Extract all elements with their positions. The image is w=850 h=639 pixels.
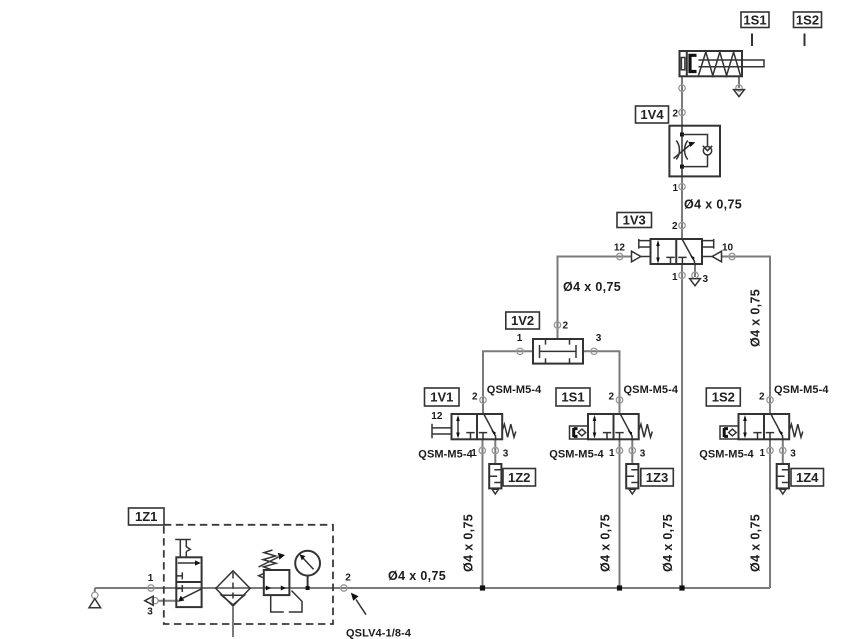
1S2 flow arrow (left position) (744, 418, 746, 437)
1V3 pilot triangle left (12) (632, 251, 641, 262)
svg-text:Ø4 x 0,75: Ø4 x 0,75 (661, 514, 675, 572)
shutoff valve exhaust diagonal (182, 589, 202, 599)
svg-text:Ø4 x 0,75: Ø4 x 0,75 (563, 280, 621, 294)
service unit 1Z1 dashed enclosure (164, 525, 333, 624)
svg-text:3: 3 (640, 449, 646, 460)
1V1 exhaust diagonal 2-3 (right square) (484, 414, 494, 433)
1V3 flow arrow (left square) (657, 243, 659, 262)
wire: cylinder exhaust stub (738, 76, 740, 88)
svg-text:Ø4 x 0,75: Ø4 x 0,75 (749, 514, 763, 572)
svg-text:1V4: 1V4 (640, 107, 664, 122)
1V4 throttle arcs (676, 141, 687, 160)
1S1 exhaust diagonal 2-3 (right square) (620, 414, 630, 433)
svg-text:1Z1: 1Z1 (135, 509, 157, 524)
silencer 1Z3 (626, 464, 638, 488)
cylinder return spring (699, 52, 741, 76)
1V3 pilot triangle right (10) (712, 251, 721, 262)
svg-text:QSLV4-1/8-4: QSLV4-1/8-4 (346, 628, 412, 639)
svg-text:1: 1 (672, 272, 678, 283)
shutoff valve detent lever (175, 540, 191, 558)
svg-text:3: 3 (147, 607, 153, 618)
regulator flow arrows (266, 586, 271, 591)
1Z1 port 2 node (341, 585, 347, 591)
1V2 port 1 node (517, 348, 523, 354)
svg-text:1: 1 (672, 183, 678, 194)
wire: riser 1V3 port 1 to manifold (681, 264, 683, 588)
wire: 1Z1 exhaust line (158, 600, 179, 602)
label box 1Z2 (503, 469, 536, 487)
junction node at 1V1 riser (480, 585, 485, 590)
svg-text:1S2: 1S2 (796, 12, 819, 27)
svg-text:3: 3 (596, 333, 602, 344)
wire: 1V3 port 3 exhaust stub (694, 264, 696, 277)
svg-text:1V2: 1V2 (511, 313, 534, 328)
filter drain line (232, 606, 234, 637)
regulator spring (263, 550, 276, 570)
wire: supply inlet bend (94, 588, 96, 593)
cylinder 1A (single-acting, spring return) body (680, 51, 743, 76)
svg-text:2: 2 (759, 392, 765, 403)
wire: 1V2 port 2 up to 1V3 pilot 12 (558, 257, 632, 340)
wire: 1S1 port 3 to silencer 1Z3 (631, 439, 633, 464)
1V4 through line (681, 126, 683, 177)
wire: riser to 1S1 port 1 (619, 439, 621, 588)
label box 1Z3 (641, 469, 674, 487)
silencer 1Z4 (777, 464, 789, 488)
1V3 top tabs (639, 239, 651, 249)
regulator relief vent loop (271, 591, 302, 612)
svg-text:1: 1 (609, 448, 615, 459)
1S1 blocked port T (right square) (615, 433, 623, 440)
label box 1V2 (506, 312, 540, 329)
1V2 I-beam shuttle (540, 345, 577, 358)
1V3 port 3 exhaust (692, 272, 698, 278)
1S1 flow arrow (left position) (594, 418, 596, 437)
wire: supply manifold horizontal (95, 587, 770, 589)
valve 1V3 body (3/2 double pilot) (651, 239, 703, 264)
svg-text:2: 2 (563, 321, 569, 332)
1V2 port 2 node (554, 322, 560, 328)
1Z1 exhaust port 3 (152, 598, 158, 604)
label box 1S2 (706, 388, 740, 406)
svg-text:QSM-M5-4: QSM-M5-4 (418, 449, 473, 461)
wire: riser to 1S2 port 1 (769, 439, 771, 588)
svg-text:2: 2 (472, 392, 478, 403)
svg-text:QSM-M5-4: QSM-M5-4 (487, 384, 542, 396)
1V2 seat ticks (546, 339, 570, 364)
1Z1 port 1 node (148, 585, 154, 591)
wire: 1V3 pilot 10 to 1S2 port 2 (722, 257, 771, 415)
1S2 blocked port T (right square) (766, 433, 774, 440)
QSLV pointer arrow (356, 600, 366, 615)
svg-text:3: 3 (703, 274, 709, 285)
svg-text:1Z4: 1Z4 (796, 470, 819, 485)
1S2 return spring (789, 424, 803, 437)
valve 1S2 body (739, 414, 790, 439)
1V1 flow arrow (left position) (457, 418, 459, 437)
regulator adjustment arrow (259, 557, 279, 567)
svg-text:1S1: 1S1 (561, 390, 584, 405)
svg-text:3: 3 (503, 449, 509, 460)
pressure regulator box (264, 570, 290, 595)
svg-text:2: 2 (672, 109, 678, 120)
shutoff valve flow arrow (top square) (178, 562, 196, 564)
1S2 exhaust diagonal 2-3 (right square) (771, 414, 781, 433)
svg-text:QSM-M5-4: QSM-M5-4 (774, 384, 829, 396)
cylinder piston (686, 51, 688, 76)
1S1 port nodes (616, 397, 622, 403)
cylinder magnet bracket (690, 55, 697, 71)
cylinder cushion rect (681, 58, 685, 70)
svg-text:Ø4 x 0,75: Ø4 x 0,75 (684, 198, 742, 212)
1V1 manual push-button actuator (432, 424, 452, 438)
svg-text:Ø4 x 0,75: Ø4 x 0,75 (388, 569, 446, 583)
1V4 port 1 node (679, 184, 685, 190)
svg-text:Ø4 x 0,75: Ø4 x 0,75 (462, 514, 476, 572)
svg-text:QSM-M5-4: QSM-M5-4 (624, 384, 679, 396)
svg-text:Ø4 x 0,75: Ø4 x 0,75 (599, 514, 613, 572)
wire: 1V1 port 3 to silencer 1Z2 (494, 439, 496, 464)
1S1 return spring (639, 424, 653, 437)
1V4 adjustment arrow (674, 144, 692, 159)
label box 1V1 (425, 388, 460, 406)
label box 1Z1 (129, 508, 165, 525)
svg-text:1V1: 1V1 (430, 390, 453, 405)
label box 1S2 (top) (794, 12, 822, 28)
1V3 exhaust diagonal (682, 239, 693, 258)
valve 1V1 body (452, 414, 503, 439)
label box 1Z4 (791, 469, 824, 487)
1V3 blocked T (right square) (678, 257, 686, 264)
label box 1V3 (617, 213, 652, 228)
1V1 port nodes (480, 397, 486, 403)
regulator relief mark (259, 573, 264, 578)
wire: 1V2 port 3 to 1S1 port 2 (583, 351, 620, 414)
1V2 port 3 node (591, 348, 597, 354)
1V1 blocked port T (left square) (466, 433, 474, 440)
svg-text:3: 3 (790, 449, 796, 460)
1V3 port nodes (617, 253, 623, 259)
1V1 blocked port T (right square) (479, 433, 487, 440)
label box 1S1 (top) (741, 12, 769, 28)
svg-text:QSM-M5-4: QSM-M5-4 (699, 449, 754, 461)
svg-text:12: 12 (614, 243, 626, 254)
wire: 1S2 port 3 to silencer 1Z4 (782, 439, 784, 464)
svg-text:2: 2 (672, 221, 678, 232)
limit switch tick 1S2 (804, 34, 806, 47)
1V4 branch nodes (680, 133, 684, 137)
svg-text:Ø4 x 0,75: Ø4 x 0,75 (749, 289, 763, 347)
svg-text:1Z3: 1Z3 (646, 470, 668, 485)
svg-text:1: 1 (517, 333, 523, 344)
svg-text:1V3: 1V3 (623, 213, 646, 228)
wire: 1V1 port 2 up to 1V2 port 1 (483, 351, 533, 414)
1V3 blocked T (left square) (666, 257, 674, 264)
1V4 bypass check valve (682, 135, 708, 167)
pressure gauge (295, 551, 320, 576)
1Z1 shutoff valve body (176, 557, 201, 607)
svg-text:1: 1 (148, 573, 154, 584)
svg-text:QSM-M5-4: QSM-M5-4 (549, 449, 604, 461)
1S2 roller actuator (720, 426, 739, 439)
flow control valve 1V4 outer box (669, 126, 720, 177)
1S1 roller actuator (570, 426, 589, 439)
label box 1V4 (636, 106, 669, 123)
1S2 blocked port T (left square) (753, 433, 761, 440)
shutoff valve T (bottom square) (176, 585, 182, 592)
wire: 1V4 port 1 down to 1V3 port 2 (681, 176, 683, 239)
cylinder port node (679, 85, 685, 91)
shutoff valve T (top square) (176, 572, 182, 579)
cylinder exhaust port + triangle (736, 85, 742, 91)
svg-text:1: 1 (759, 448, 765, 459)
wire: riser to 1V1 port 1 (482, 439, 484, 588)
svg-text:1S1: 1S1 (743, 12, 766, 27)
label box 1S1 (556, 388, 590, 406)
svg-text:2: 2 (345, 573, 351, 584)
cylinder piston rod (699, 60, 765, 67)
two-pressure valve 1V2 body (533, 339, 583, 364)
svg-text:1S2: 1S2 (712, 390, 735, 405)
1V4 port 2 node (679, 109, 685, 115)
1S2 port nodes (767, 397, 773, 403)
filter/water separator diamond (216, 571, 250, 606)
1V1 return spring (502, 424, 516, 437)
limit switch tick 1S1 (751, 34, 753, 47)
junction node at 1S1 riser (617, 585, 622, 590)
valve 1S1 body (588, 414, 639, 439)
svg-text:10: 10 (722, 243, 734, 254)
svg-text:1Z2: 1Z2 (508, 470, 530, 485)
svg-text:2: 2 (608, 392, 614, 403)
svg-text:12: 12 (431, 411, 443, 422)
silencer 1Z2 (489, 464, 501, 488)
junction node at 1V3 riser (679, 585, 684, 590)
wire: cylinder port down to 1V4 (681, 76, 683, 125)
1S1 blocked port T (left square) (603, 433, 611, 440)
compressed air supply source (92, 592, 98, 598)
